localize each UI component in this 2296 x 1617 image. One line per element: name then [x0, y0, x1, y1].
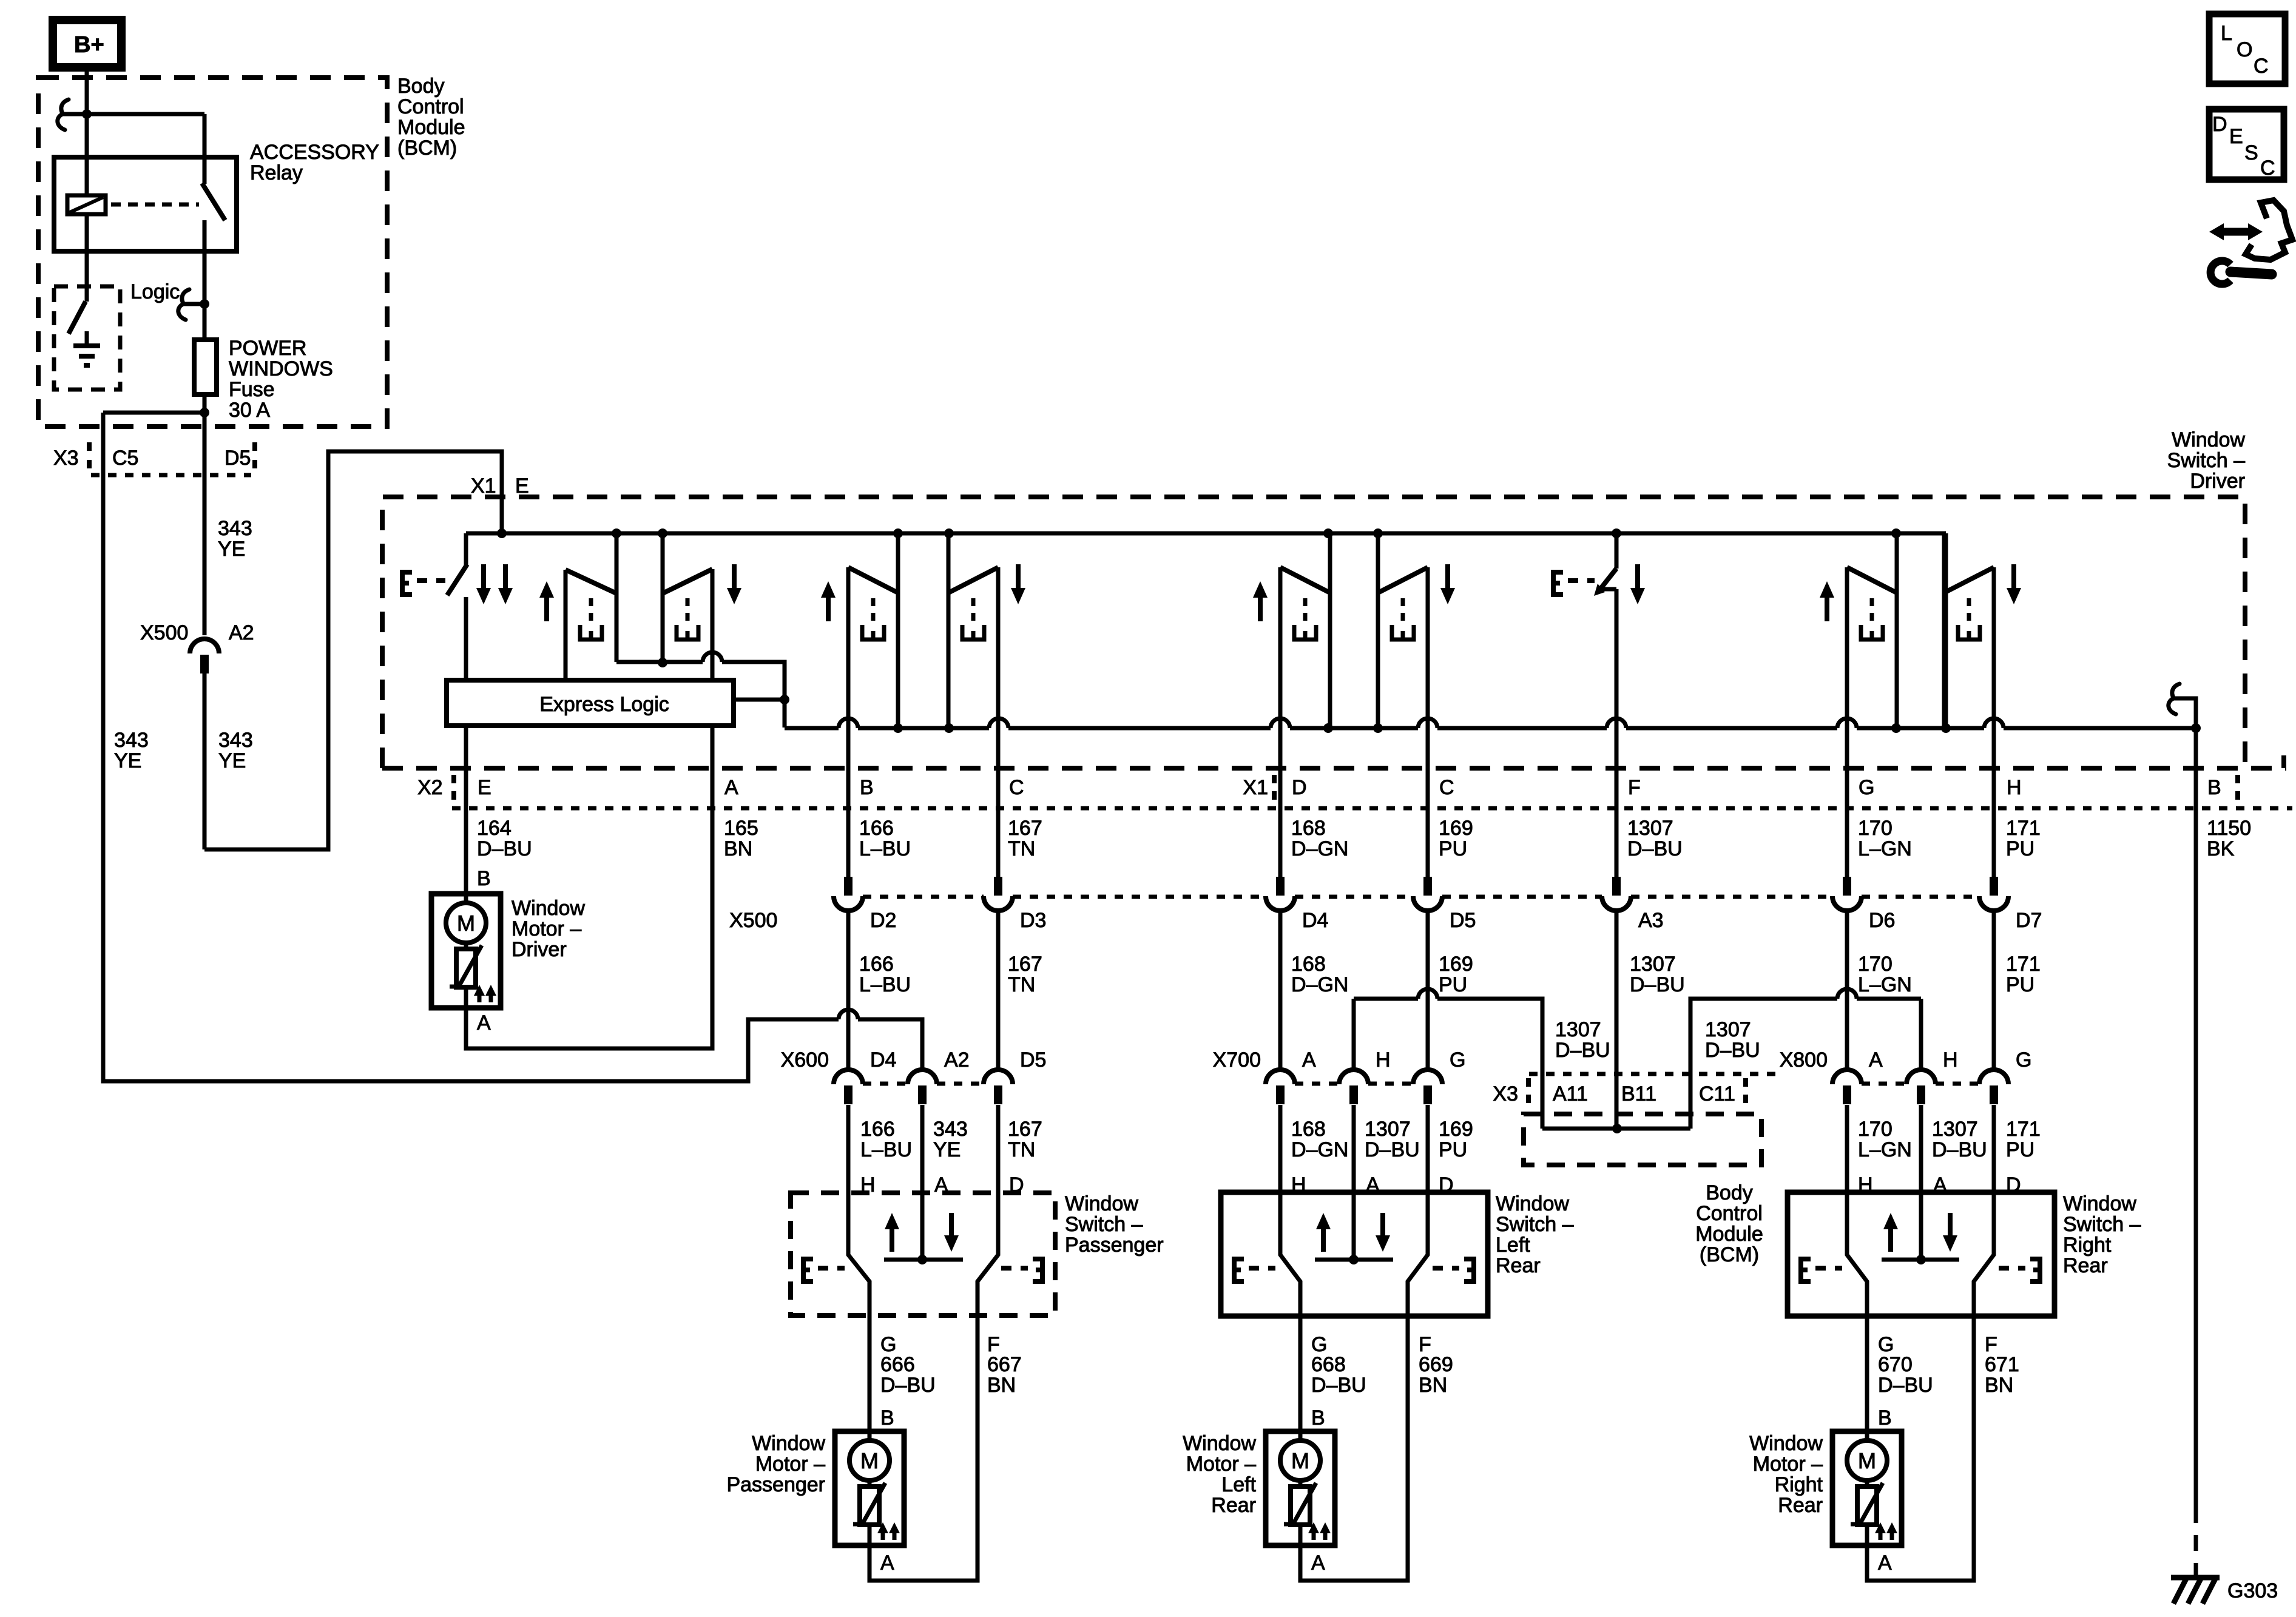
wire 343 YE detour to X1 E: [204, 451, 502, 849]
svg-text:A: A: [1869, 1048, 1883, 1072]
contact pair 3 left rear window down: [1378, 533, 1455, 808]
node bus junctions: [497, 528, 1901, 538]
svg-text:Right: Right: [2063, 1234, 2112, 1257]
labels X1 E entry: [471, 474, 529, 498]
svg-text:BN: BN: [987, 1374, 1016, 1397]
svg-text:H: H: [1943, 1048, 1958, 1072]
svg-text:D–BU: D–BU: [880, 1374, 936, 1397]
svg-text:PU: PU: [2006, 973, 2034, 996]
connector row X2/X1 dotted line: [452, 806, 2292, 811]
connector row X700 dashed line: [1295, 1082, 1413, 1086]
svg-text:A3: A3: [1638, 909, 1664, 932]
svg-text:BN: BN: [724, 837, 752, 860]
svg-text:169: 169: [1439, 953, 1473, 976]
passenger switch express marks: [803, 1259, 1042, 1281]
svg-text:D–BU: D–BU: [477, 837, 532, 860]
labels pins H A D passenger switch: [860, 1173, 1024, 1197]
svg-text:B: B: [880, 1406, 894, 1430]
fuse POWER WINDOWS 30 A: [194, 340, 217, 394]
svg-text:167: 167: [1008, 1118, 1042, 1141]
svg-text:BN: BN: [1985, 1374, 2013, 1397]
node common line end with curl: [2169, 684, 2196, 728]
wire 669 BN left rear motor return: [1300, 1316, 1408, 1581]
svg-text:Module: Module: [397, 116, 465, 139]
svg-text:G: G: [2016, 1048, 2031, 1072]
node fuse output branch: [103, 408, 209, 417]
svg-text:D–BU: D–BU: [1627, 837, 1683, 860]
svg-text:170: 170: [1858, 1118, 1893, 1141]
labels wires below X600: [860, 1118, 1042, 1161]
svg-text:X3: X3: [53, 447, 79, 470]
connector X700 A: [1266, 1048, 1316, 1255]
svg-text:BK: BK: [2207, 837, 2235, 860]
connector X500 D6: [1832, 808, 1895, 1069]
svg-text:164: 164: [477, 817, 512, 840]
wire B+ feed into BCM: [85, 67, 89, 195]
svg-text:X3: X3: [1493, 1082, 1518, 1106]
svg-text:D: D: [1292, 776, 1307, 799]
wire supply bus: [466, 532, 1946, 536]
wire 668 D-BU to left rear motor: [1298, 1316, 1303, 1431]
label E with dashes (F express): [1553, 572, 1595, 595]
svg-text:D–BU: D–BU: [1932, 1138, 1987, 1161]
node common line junctions: [893, 723, 2201, 733]
window motor passenger: [835, 1431, 904, 1545]
Express Logic box: [447, 680, 734, 726]
svg-text:L–BU: L–BU: [859, 973, 911, 996]
connector X500 D2: [834, 808, 896, 1069]
svg-text:YE: YE: [114, 749, 141, 772]
svg-text:Rear: Rear: [1496, 1254, 1541, 1277]
svg-text:X800: X800: [1780, 1048, 1828, 1072]
label Window Switch Driver: [2167, 428, 2246, 493]
node battery feed junction with curl: [58, 100, 92, 130]
svg-text:D4: D4: [1302, 909, 1328, 932]
icon remove/install arrow: [2209, 223, 2263, 240]
svg-text:X600: X600: [781, 1048, 829, 1072]
svg-text:E: E: [515, 474, 529, 498]
BCM lower dashed box: [1524, 1114, 1761, 1165]
svg-text:A: A: [724, 776, 738, 799]
wire BCM internal junction: [1542, 1124, 1690, 1133]
svg-text:B+: B+: [74, 32, 104, 58]
svg-text:E: E: [2229, 125, 2243, 148]
svg-text:PU: PU: [1439, 837, 1467, 860]
svg-text:D5: D5: [1020, 1048, 1046, 1072]
svg-text:G303: G303: [2227, 1579, 2278, 1602]
svg-text:A: A: [1311, 1551, 1325, 1575]
labels wire circuits below X2/X1 row: [477, 817, 2251, 860]
label pin A right rear motor: [1878, 1551, 1892, 1575]
passenger switch contacts: [848, 1193, 998, 1315]
svg-text:Window: Window: [1183, 1432, 1256, 1455]
wire 1150 BK ground run: [2194, 808, 2198, 1578]
svg-text:171: 171: [2006, 817, 2041, 840]
svg-text:343: 343: [114, 729, 149, 752]
right rear switch express marks: [1801, 1259, 2040, 1281]
svg-text:1307: 1307: [1932, 1118, 1978, 1141]
svg-text:C: C: [1009, 776, 1024, 799]
svg-text:YE: YE: [933, 1138, 961, 1161]
svg-text:Driver: Driver: [2190, 470, 2245, 493]
svg-text:Passenger: Passenger: [1065, 1234, 1164, 1257]
svg-text:YE: YE: [218, 749, 246, 772]
connector X500 pin A2 inline: [140, 621, 254, 673]
svg-text:L–GN: L–GN: [1858, 973, 1912, 996]
label Logic: [130, 280, 180, 303]
Window Switch Right Rear box: [1788, 1192, 2055, 1316]
labels X1 row pins: [1243, 775, 2238, 807]
svg-text:Driver: Driver: [512, 938, 567, 961]
svg-text:Left: Left: [1221, 1473, 1256, 1496]
svg-text:D–BU: D–BU: [1878, 1374, 1933, 1397]
svg-text:YE: YE: [218, 538, 245, 561]
svg-text:Switch –: Switch –: [1496, 1213, 1574, 1236]
svg-text:PU: PU: [1439, 973, 1467, 996]
labels 343 YE pair: [114, 729, 253, 772]
svg-text:1307: 1307: [1627, 817, 1673, 840]
wire 343 YE circuit C5 long run: [103, 413, 922, 1081]
wire 670 D-BU to right rear motor: [1865, 1316, 1869, 1431]
svg-text:Window: Window: [752, 1432, 825, 1455]
svg-text:(BCM): (BCM): [1700, 1243, 1759, 1266]
svg-text:668: 668: [1311, 1353, 1346, 1376]
svg-text:1307: 1307: [1555, 1018, 1601, 1041]
svg-text:D6: D6: [1869, 909, 1895, 932]
label Body Control Module (BCM): [397, 75, 465, 160]
window motor left rear: [1266, 1431, 1335, 1545]
relay coil-to-contact dashed link: [111, 203, 199, 207]
wire 164 D-BU to driver motor: [464, 726, 468, 894]
svg-text:Left: Left: [1496, 1234, 1530, 1257]
svg-text:A2: A2: [944, 1048, 970, 1072]
svg-text:669: 669: [1419, 1353, 1453, 1376]
svg-text:X500: X500: [140, 621, 188, 644]
label pin B left rear motor: [1311, 1406, 1325, 1430]
svg-text:671: 671: [1985, 1353, 2019, 1376]
icon panel outline: [2246, 200, 2292, 260]
svg-text:TN: TN: [1008, 973, 1035, 996]
label pin B passenger motor: [880, 1406, 894, 1430]
svg-text:M: M: [1858, 1448, 1876, 1473]
contact pair 4 right rear window down: [1944, 533, 2021, 808]
labels wire circuits below X500: [859, 953, 2041, 996]
connector row X800 dashed line: [1862, 1082, 1979, 1086]
label pin A driver motor: [477, 1011, 491, 1035]
connector X600 A2: [908, 1048, 970, 1260]
svg-text:168: 168: [1291, 953, 1326, 976]
connector X800 G: [1979, 1048, 2031, 1255]
svg-text:BN: BN: [1419, 1374, 1447, 1397]
connector X500 D5: [1413, 808, 1476, 1069]
label Window Switch Left Rear: [1496, 1192, 1574, 1277]
relay coil: [67, 195, 106, 214]
label ACCESSORY Relay: [250, 141, 379, 184]
svg-text:D–BU: D–BU: [1705, 1039, 1760, 1062]
svg-text:PU: PU: [1439, 1138, 1467, 1161]
connector row X500 dashed line: [863, 895, 1979, 899]
label Window Motor Right Rear: [1749, 1432, 1823, 1517]
svg-text:Motor –: Motor –: [512, 917, 581, 940]
svg-text:168: 168: [1291, 1118, 1326, 1141]
labels wires below X700: [1291, 1118, 1473, 1161]
wire 165 BN driver motor return: [466, 726, 712, 1048]
logic switch blade: [69, 302, 86, 334]
labels wires 668 669: [1311, 1353, 1453, 1397]
label 1307 D-BU (A11 run): [1555, 1018, 1610, 1062]
svg-text:ACCESSORY: ACCESSORY: [250, 141, 379, 164]
svg-text:166: 166: [860, 1118, 895, 1141]
svg-text:L–BU: L–BU: [859, 837, 911, 860]
svg-text:Rear: Rear: [1211, 1494, 1256, 1517]
svg-text:L–BU: L–BU: [860, 1138, 912, 1161]
label Window Motor Left Rear: [1183, 1432, 1256, 1517]
wire 343 YE below X500 A2: [203, 673, 207, 849]
svg-text:1307: 1307: [1705, 1018, 1751, 1041]
label Body Control Module (BCM) lower: [1695, 1181, 1763, 1266]
svg-text:171: 171: [2006, 953, 2041, 976]
svg-text:169: 169: [1439, 1118, 1473, 1141]
svg-text:167: 167: [1008, 817, 1042, 840]
ground in BCM logic: [73, 331, 100, 365]
svg-text:343: 343: [218, 729, 253, 752]
label X700: [1213, 1048, 1261, 1072]
connector X600 D5: [984, 1048, 1046, 1255]
svg-text:X700: X700: [1213, 1048, 1261, 1072]
arrow express F down: [1630, 564, 1645, 604]
window motor driver: [431, 894, 501, 1008]
Window Switch Passenger dashed box: [791, 1193, 1055, 1315]
svg-text:1307: 1307: [1365, 1118, 1411, 1141]
svg-text:Window: Window: [1065, 1192, 1138, 1215]
svg-text:171: 171: [2006, 1118, 2041, 1141]
svg-text:Switch –: Switch –: [2063, 1213, 2141, 1236]
svg-text:X1: X1: [471, 474, 496, 498]
connector X3 BCM top row labels: [53, 442, 255, 475]
labels pins H A D left rear switch: [1291, 1173, 1454, 1197]
contact pair 2 passenger window down: [948, 533, 1025, 808]
wire 1307 D-BU X700 H to BCM A11: [1354, 989, 1542, 1129]
svg-text:Motor –: Motor –: [1753, 1453, 1823, 1476]
wire bus end drop to common: [1944, 533, 1948, 728]
Window Switch Left Rear box: [1221, 1192, 1488, 1316]
svg-text:Control: Control: [1696, 1202, 1763, 1225]
svg-text:A: A: [880, 1551, 894, 1575]
icon wrench: [2210, 261, 2272, 284]
connector X500 D4: [1266, 808, 1328, 1069]
connector X3 BCM bottom row: [1493, 1074, 1784, 1108]
label 1307 D-BU (C11 run): [1705, 1018, 1760, 1062]
battery B+ terminal: [53, 20, 121, 67]
label pin A left rear motor: [1311, 1551, 1325, 1575]
express switch F (BCM sense): [1594, 533, 1616, 808]
label 343 YE (D5 drop): [218, 517, 252, 561]
labels wires 666 667: [880, 1353, 1022, 1397]
svg-text:343: 343: [218, 517, 252, 540]
connector X700 H: [1339, 1048, 1391, 1260]
node express logic output stub: [734, 695, 789, 704]
svg-text:O: O: [2237, 38, 2252, 61]
svg-text:D5: D5: [1450, 909, 1476, 932]
label pin B right rear motor: [1878, 1406, 1892, 1430]
svg-text:D–BU: D–BU: [1311, 1374, 1366, 1397]
node fuse feed junction with curl: [178, 289, 209, 320]
svg-text:(BCM): (BCM): [397, 137, 457, 160]
svg-text:X500: X500: [729, 909, 777, 932]
Logic dashed box: [54, 286, 120, 390]
svg-text:L–GN: L–GN: [1858, 1138, 1912, 1161]
svg-text:Control: Control: [397, 95, 464, 118]
svg-text:D–BU: D–BU: [1555, 1039, 1610, 1062]
BCM module dashed box: [38, 78, 387, 427]
svg-text:Switch –: Switch –: [1065, 1213, 1143, 1236]
svg-text:167: 167: [1008, 953, 1042, 976]
svg-text:Fuse: Fuse: [229, 378, 275, 401]
svg-text:Rear: Rear: [2063, 1254, 2108, 1277]
contact pair 2 passenger window up: [821, 533, 898, 808]
svg-text:A: A: [477, 1011, 491, 1035]
icon DESC box: [2209, 109, 2284, 180]
svg-text:D5: D5: [225, 447, 251, 470]
svg-text:X1: X1: [1243, 776, 1268, 799]
icon LOC box: [2209, 14, 2285, 84]
window motor right rear: [1832, 1431, 1902, 1545]
left rear switch express marks: [1234, 1259, 1474, 1281]
svg-text:166: 166: [859, 953, 894, 976]
labels pins G F right rear: [1878, 1333, 1997, 1356]
wire switch common line: [785, 718, 2196, 728]
svg-text:TN: TN: [1008, 837, 1035, 860]
svg-text:M: M: [1291, 1448, 1309, 1473]
svg-text:Body: Body: [397, 75, 445, 98]
svg-text:D–GN: D–GN: [1291, 837, 1348, 860]
svg-text:PU: PU: [2006, 1138, 2034, 1161]
connector X700 G: [1413, 1048, 1465, 1255]
svg-text:A: A: [1878, 1551, 1892, 1575]
svg-text:Window: Window: [1749, 1432, 1823, 1455]
label X800: [1780, 1048, 1828, 1072]
svg-text:667: 667: [987, 1353, 1022, 1376]
svg-text:M: M: [860, 1448, 879, 1473]
svg-text:Express Logic: Express Logic: [539, 693, 669, 716]
svg-text:D7: D7: [2016, 909, 2042, 932]
svg-text:Switch –: Switch –: [2167, 449, 2246, 472]
svg-text:666: 666: [880, 1353, 915, 1376]
svg-text:Motor –: Motor –: [1186, 1453, 1256, 1476]
wire express feed from pair 1 commons: [616, 652, 785, 727]
label Window Motor Driver: [512, 897, 585, 961]
label E with dashes (driver express): [402, 572, 445, 595]
svg-text:D: D: [2212, 113, 2227, 136]
relay K: ACCESSORY Relay box: [54, 157, 237, 251]
svg-text:C: C: [2254, 55, 2269, 78]
svg-text:B11: B11: [1621, 1082, 1656, 1106]
connector X600 D4: [834, 1048, 896, 1255]
svg-text:Window: Window: [2172, 428, 2245, 451]
svg-text:C5: C5: [112, 447, 138, 470]
svg-text:G: G: [1859, 776, 1874, 799]
svg-text:Motor –: Motor –: [755, 1453, 825, 1476]
labels pins G F left rear: [1311, 1333, 1431, 1356]
connector X500 A3: [1602, 808, 1664, 1129]
svg-text:B: B: [1878, 1406, 1892, 1430]
wire fuse output: [203, 394, 207, 635]
svg-text:D3: D3: [1020, 909, 1046, 932]
wire 667 BN passenger motor return: [869, 1315, 977, 1581]
labels wires 670 671: [1878, 1353, 2019, 1397]
svg-text:343: 343: [933, 1118, 968, 1141]
wire B pin drop: [2194, 728, 2198, 808]
labels pins H A D right rear switch: [1858, 1173, 2021, 1197]
svg-text:B: B: [1311, 1406, 1325, 1430]
svg-text:165: 165: [724, 817, 758, 840]
svg-text:168: 168: [1291, 817, 1326, 840]
svg-text:A11: A11: [1553, 1082, 1588, 1106]
wire coil to logic switch: [85, 214, 89, 302]
labels wires below X800: [1858, 1118, 2041, 1161]
connector row X2/X1 dashed line: [382, 755, 2286, 768]
svg-text:Module: Module: [1695, 1223, 1763, 1246]
label POWER WINDOWS Fuse 30 A: [229, 337, 333, 422]
svg-text:170: 170: [1858, 953, 1893, 976]
contact pair 4 right rear window up: [1820, 533, 1897, 808]
left rear switch contacts: [1280, 1192, 1428, 1316]
svg-text:30 A: 30 A: [229, 399, 270, 422]
contact pair 3 left rear window up: [1253, 533, 1330, 808]
svg-text:D4: D4: [870, 1048, 896, 1072]
svg-text:1307: 1307: [1630, 953, 1676, 976]
svg-text:D–GN: D–GN: [1291, 973, 1348, 996]
label pin B driver motor: [477, 867, 491, 890]
svg-text:D–BU: D–BU: [1630, 973, 1685, 996]
svg-text:Passenger: Passenger: [726, 1473, 825, 1496]
svg-text:Rear: Rear: [1778, 1494, 1823, 1517]
wire 666 D-BU to passenger motor: [868, 1315, 872, 1431]
svg-text:Window: Window: [512, 897, 585, 920]
right rear switch contacts: [1847, 1192, 1994, 1316]
svg-text:D–GN: D–GN: [1291, 1138, 1348, 1161]
svg-text:Body: Body: [1706, 1181, 1753, 1204]
Window Switch Driver dashed box: [382, 497, 2245, 768]
label pin A passenger motor: [880, 1551, 894, 1575]
svg-text:WINDOWS: WINDOWS: [229, 357, 333, 380]
svg-text:TN: TN: [1008, 1138, 1035, 1161]
connector row X600 dashed line: [863, 1082, 984, 1086]
svg-text:Window: Window: [1496, 1192, 1569, 1215]
connector X800 H: [1906, 1048, 1958, 1260]
labels pins G F passenger: [880, 1333, 1000, 1356]
svg-text:C: C: [2260, 157, 2275, 180]
arrows express down-down: [476, 564, 513, 604]
svg-text:Window: Window: [2063, 1192, 2136, 1215]
wire 1307 D-BU X800 H to BCM C11: [1690, 989, 1921, 1129]
label Window Motor Passenger: [726, 1432, 825, 1496]
svg-text:PU: PU: [2006, 837, 2034, 860]
svg-text:D2: D2: [870, 909, 896, 932]
express switch driver (E): [447, 533, 467, 680]
svg-text:B: B: [860, 776, 874, 799]
svg-text:C11: C11: [1699, 1082, 1735, 1106]
svg-text:C: C: [1439, 776, 1454, 799]
svg-text:Right: Right: [1775, 1473, 1823, 1496]
svg-text:670: 670: [1878, 1353, 1913, 1376]
connector X500 D3: [984, 808, 1046, 1069]
svg-text:H: H: [1376, 1048, 1391, 1072]
svg-text:F: F: [1628, 776, 1641, 799]
contact pair 1 driver window down: [663, 533, 741, 680]
wire 671 BN right rear motor return: [1867, 1316, 1974, 1581]
connector X500 D7: [1979, 808, 2042, 1069]
